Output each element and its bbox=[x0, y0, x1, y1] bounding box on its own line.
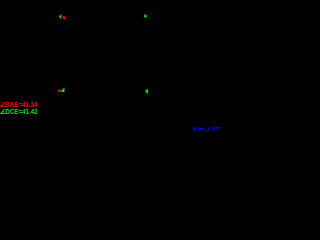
point marker: green triangle (point D, lower-left) bbox=[60, 87, 64, 92]
angle symbol of red measurement bbox=[1, 102, 5, 106]
watermark word 2 (tiny glyph cluster) bbox=[213, 127, 221, 131]
watermark word 1 (tiny glyph cluster) bbox=[198, 127, 205, 131]
watermark slash bbox=[207, 127, 210, 131]
svg-text:DCE=41.42: DCE=41.42 bbox=[5, 109, 37, 116]
watermark glyph X bbox=[193, 127, 195, 130]
svg-text:BAE=41.34: BAE=41.34 bbox=[5, 102, 37, 109]
point marker: red dot (point C, lower-left) bbox=[58, 89, 61, 92]
point marker: green left-arrow (lower-right) bbox=[145, 89, 148, 94]
point marker: green left-arrow (point B, top-left) bbox=[59, 14, 62, 18]
point marker: red down-arrow (point A region cursor) bbox=[62, 16, 67, 20]
angle symbol of green measurement bbox=[1, 109, 5, 113]
point marker: green hook (point E, top-right) bbox=[144, 14, 147, 17]
